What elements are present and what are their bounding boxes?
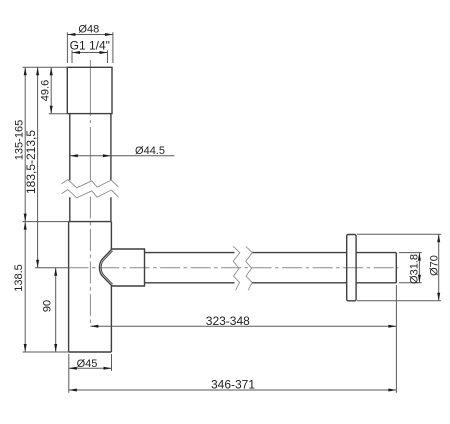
svg-text:Ø48: Ø48 <box>78 24 99 36</box>
svg-text:Ø45: Ø45 <box>77 358 98 370</box>
dimension line 346-371 <box>69 389 397 391</box>
outlet fitting body <box>111 249 144 286</box>
cap nut body <box>67 67 112 113</box>
svg-text:G1 1/4": G1 1/4" <box>70 39 110 53</box>
dimension line diameter 70 <box>438 234 440 301</box>
break zigzag horizontal tube left <box>233 246 240 290</box>
dimension line diameter 31.8 <box>418 253 420 283</box>
break zigzag vertical tube lower <box>62 190 119 198</box>
extension line tube end <box>395 285 397 393</box>
svg-text:Ø44.5: Ø44.5 <box>135 145 165 157</box>
joint line bottle top <box>69 221 112 223</box>
extension lines G1 1/4 <box>72 50 108 63</box>
extension line cap top left <box>23 66 68 68</box>
extension line joint level <box>23 221 69 223</box>
extension lines diameter 70 <box>357 234 441 301</box>
dimension line 323-348 <box>90 325 396 327</box>
extension line bottle bottom left <box>23 351 69 353</box>
dimension line 49.6 <box>50 67 52 113</box>
tailpiece tube left edge <box>69 114 71 222</box>
svg-text:Ø31.8: Ø31.8 <box>409 254 421 284</box>
outlet fitting dome outer arc <box>99 249 112 286</box>
horizontal outlet tube bottom edge <box>145 282 397 284</box>
centerline horizontal axis <box>69 267 399 269</box>
dimension line 183,5-213,5 <box>37 67 39 267</box>
extension lines diameter 48 <box>67 32 113 63</box>
dimension line G1 1/4 <box>72 52 108 54</box>
svg-text:138.5: 138.5 <box>13 264 25 292</box>
extension line cap bottom <box>49 113 68 115</box>
outlet fitting dome inner arc <box>101 251 113 284</box>
dimension line diameter 45 <box>69 367 112 369</box>
svg-text:346-371: 346-371 <box>211 378 255 392</box>
bottle bottom <box>69 351 112 353</box>
centerline vertical axis <box>89 60 91 327</box>
wall flange <box>347 235 356 301</box>
svg-text:323-348: 323-348 <box>206 314 250 328</box>
dimension line diameter 48 <box>67 34 113 36</box>
dimension line diameter 44.5 <box>70 155 175 157</box>
dimension line 90 <box>55 268 57 352</box>
extension line outlet centerline level <box>35 267 69 269</box>
bottle body edges <box>69 222 112 352</box>
svg-text:Ø70: Ø70 <box>429 255 441 276</box>
extension lines diameter 31.8 <box>399 253 422 283</box>
tube end face <box>395 253 397 283</box>
horizontal outlet tube top edge <box>145 252 397 254</box>
svg-text:49.6: 49.6 <box>40 80 52 101</box>
break zigzag horizontal tube right <box>246 246 253 290</box>
dimension line 138.5 <box>24 222 26 352</box>
tailpiece tube right edge <box>110 114 112 222</box>
dimension line 135-165 <box>24 67 26 221</box>
extension lines diameter 45 <box>69 354 112 393</box>
break zigzag vertical tube upper <box>62 180 119 188</box>
svg-text:183,5-213,5: 183,5-213,5 <box>24 130 38 194</box>
svg-text:90: 90 <box>42 300 54 312</box>
